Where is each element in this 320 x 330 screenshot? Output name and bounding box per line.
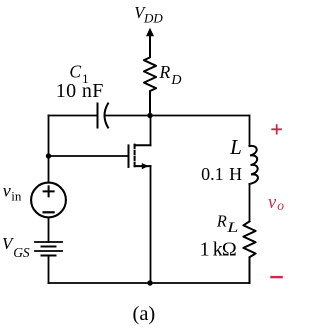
svg-text:L: L (229, 135, 242, 159)
svg-text:R: R (216, 212, 227, 231)
output plus sign (red) (272, 125, 281, 134)
wire bottom rail (49, 282, 250, 284)
capacitor C1 (98, 104, 109, 128)
label v_in (3, 181, 22, 204)
wire v_in to battery (48, 217, 50, 242)
svg-text:v: v (3, 181, 11, 201)
transistor Q1 NMOS (129, 116, 151, 170)
node gate junction dot (46, 153, 51, 158)
svg-text:10 nF: 10 nF (56, 80, 104, 102)
svg-text:GS: GS (13, 245, 30, 260)
wire gate node down to v_in (48, 156, 50, 183)
resistor RL (243, 221, 255, 283)
wire inductor to RL (249, 184, 251, 221)
output minus sign (red) (272, 276, 282, 278)
source v_in circle (31, 183, 66, 218)
label RD (159, 62, 182, 88)
svg-text:D: D (170, 73, 181, 88)
label VDD (134, 3, 163, 26)
node drain junction dot (147, 113, 152, 118)
label RL (216, 212, 239, 236)
label C1 (69, 61, 88, 86)
label vo (red) (268, 193, 284, 213)
label VGS (2, 234, 30, 260)
wire battery to bottom rail (48, 256, 50, 284)
power VDD arrow symbol (146, 28, 154, 36)
svg-text:1 kΩ: 1 kΩ (200, 239, 236, 261)
svg-text:C: C (69, 61, 81, 81)
wire source down to bottom rail (150, 166, 152, 283)
wire left rail (top corner down to gate node) (48, 116, 50, 157)
v_in plus sign (44, 186, 54, 196)
svg-text:0.1 H: 0.1 H (201, 164, 242, 184)
svg-text:R: R (159, 62, 171, 82)
svg-text:o: o (277, 198, 284, 213)
svg-text:L: L (226, 219, 238, 236)
svg-text:DD: DD (143, 11, 163, 26)
node source junction dot (147, 280, 152, 285)
v_in minus sign (44, 211, 54, 213)
resistor RD (144, 34, 156, 116)
wire right rail top (249, 116, 251, 147)
wire drain node to right rail (150, 115, 250, 117)
wire C1 to drain node (105, 115, 150, 117)
svg-text:(a): (a) (133, 303, 156, 325)
wire gate node to MOSFET gate (49, 155, 129, 157)
svg-text:v: v (268, 193, 277, 213)
svg-text:in: in (11, 189, 22, 204)
wire top-left horizontal (gate node to C1) (49, 115, 98, 117)
inductor L (250, 146, 258, 184)
battery VGS (35, 242, 62, 256)
